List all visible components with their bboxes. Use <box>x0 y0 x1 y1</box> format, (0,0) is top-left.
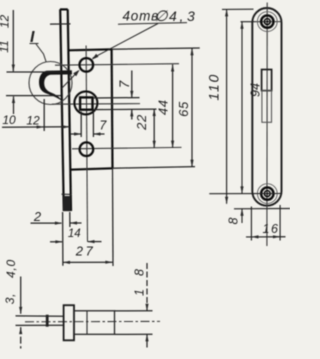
svg-text:14: 14 <box>68 228 81 240</box>
svg-text:94: 94 <box>249 83 263 97</box>
svg-text:12: 12 <box>26 113 40 127</box>
svg-text:4,0: 4,0 <box>4 259 18 278</box>
svg-text:,: , <box>180 8 184 24</box>
svg-text:3,: 3, <box>3 293 17 305</box>
svg-text:18: 18 <box>133 256 147 296</box>
svg-text:∅: ∅ <box>155 8 169 25</box>
svg-text:7: 7 <box>117 80 132 88</box>
svg-text:10: 10 <box>2 113 16 127</box>
svg-text:2: 2 <box>33 209 42 224</box>
svg-text:7: 7 <box>99 119 107 133</box>
svg-text:65: 65 <box>176 101 191 117</box>
svg-text:27: 27 <box>75 244 95 259</box>
svg-text:16: 16 <box>263 222 280 236</box>
svg-text:4: 4 <box>169 8 177 24</box>
svg-text:8: 8 <box>227 217 241 224</box>
svg-text:11: 11 <box>0 40 11 52</box>
svg-text:22: 22 <box>134 114 149 131</box>
svg-text:44: 44 <box>155 99 170 115</box>
svg-text:110: 110 <box>206 73 222 101</box>
svg-text:12: 12 <box>0 15 12 29</box>
svg-text:3: 3 <box>187 8 195 24</box>
